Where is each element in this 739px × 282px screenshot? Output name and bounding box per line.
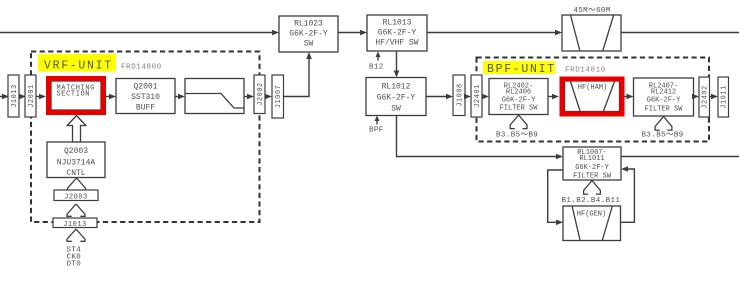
control arrow into RL2402	[510, 115, 527, 129]
svg-text:G6K-2F-Y: G6K-2F-Y	[289, 30, 328, 39]
svg-text:RL1013: RL1013	[383, 19, 412, 28]
svg-text:SST310: SST310	[131, 93, 160, 102]
svg-text:Q2001: Q2001	[133, 83, 157, 92]
label VRF-UNIT	[38, 54, 116, 73]
svg-text:J1008: J1008	[457, 83, 465, 107]
label FRD14800	[121, 64, 162, 72]
svg-text:J1013: J1013	[11, 84, 19, 108]
connector J1013	[8, 75, 19, 117]
wire RL1013 to 45M-60M filter	[427, 30, 562, 36]
svg-text:J2402: J2402	[702, 85, 710, 109]
dashed box VRF-UNIT	[31, 52, 260, 223]
svg-text:RL1011: RL1011	[579, 155, 604, 163]
wire RL1012 to RL1007	[397, 116, 564, 160]
svg-text:SECTION: SECTION	[57, 91, 91, 99]
relay RL2407	[634, 78, 694, 116]
svg-text:G6K-2F-Y: G6K-2F-Y	[378, 29, 417, 38]
svg-text:SW: SW	[391, 105, 401, 114]
connector J2001	[25, 75, 36, 117]
svg-text:RL1023: RL1023	[294, 20, 323, 29]
svg-text:FILTER SW: FILTER SW	[500, 105, 539, 113]
relay RL1013	[367, 15, 427, 51]
highlight red frame MATCHING SECTION	[49, 79, 104, 113]
svg-text:BPF-UNIT: BPF-UNIT	[487, 63, 556, 76]
svg-text:J2002: J2002	[257, 82, 265, 106]
svg-text:G6K-2F-Y: G6K-2F-Y	[377, 94, 416, 103]
svg-text:CNTL: CNTL	[66, 169, 85, 178]
svg-text:J2401: J2401	[474, 84, 482, 108]
svg-text:RL2406: RL2406	[506, 89, 531, 97]
wire J1013 to J2001	[19, 94, 26, 100]
svg-text:FILTER SW: FILTER SW	[645, 106, 684, 114]
filter 45M-60M	[562, 7, 621, 51]
svg-text:J2003: J2003	[64, 194, 88, 202]
wire RL1007 output	[621, 156, 739, 158]
wire HF(HAM) to RL2407	[625, 94, 634, 100]
control arrow J1013 to J2003	[67, 204, 85, 216]
label ST4 CK0 DT0	[67, 247, 82, 269]
wire RL1012 to J1008	[426, 94, 453, 100]
wire RL1023 to RL1013	[338, 30, 367, 36]
svg-text:J1013: J1013	[63, 221, 87, 229]
svg-text:HF(HAM): HF(HAM)	[578, 84, 607, 92]
svg-text:DT0: DT0	[67, 261, 82, 269]
svg-text:J1011: J1011	[721, 85, 729, 109]
control block arrow Q2003 to MATCHING SECTION	[67, 116, 86, 143]
wire top input to RL1023	[0, 30, 279, 36]
relay RL2402	[489, 79, 548, 115]
svg-text:G6K-2F-Y: G6K-2F-Y	[575, 164, 609, 172]
highlight red frame HF(HAM)	[562, 79, 622, 114]
wire RL2407 to J2402	[692, 94, 699, 100]
filter HF(HAM)	[565, 81, 620, 112]
svg-text:J2001: J2001	[28, 84, 36, 108]
svg-text:VRF-UNIT: VRF-UNIT	[44, 60, 113, 73]
label B3.B5-B9 right	[642, 132, 684, 140]
svg-text:G6K-2F-Y: G6K-2F-Y	[502, 97, 536, 105]
wire J1008 to J2401	[464, 94, 471, 100]
svg-text:NJU3714A: NJU3714A	[57, 159, 96, 168]
svg-text:HF/VHF SW: HF/VHF SW	[375, 39, 418, 48]
wire RL2402 to HF(HAM)	[548, 94, 559, 100]
svg-text:45M～60M: 45M～60M	[573, 7, 610, 15]
wire J2002 to J1007	[265, 94, 272, 100]
svg-text:FRD14800: FRD14800	[121, 64, 162, 72]
svg-text:B1.B2.B4.B11: B1.B2.B4.B11	[562, 197, 621, 205]
connector J2401	[471, 75, 482, 117]
label BPF-UNIT	[483, 61, 556, 76]
dashed box BPF-UNIT	[477, 58, 710, 142]
label B12 with arrow	[369, 52, 384, 72]
transistor Q2001	[116, 79, 175, 114]
svg-text:BPF: BPF	[369, 127, 384, 135]
wire 45M-60M filter output	[621, 32, 739, 34]
svg-text:B12: B12	[369, 64, 384, 72]
label FRD14810	[565, 67, 606, 75]
label B3.B5-B9 left	[496, 132, 538, 140]
wire MATCHING SECTION to Q2001	[106, 94, 116, 100]
wire left input to J1013	[0, 94, 9, 100]
control arrow into J1013 bottom	[67, 229, 85, 241]
control arrow J2003 to Q2003	[68, 178, 86, 190]
svg-text:HF(GEN): HF(GEN)	[577, 211, 606, 219]
relay RL1007	[563, 147, 621, 181]
svg-text:SW: SW	[304, 40, 314, 49]
svg-text:B3.B5～B9: B3.B5～B9	[496, 132, 538, 140]
connector J2003	[54, 190, 98, 202]
wire RL1013 to RL1012	[394, 51, 400, 78]
label B1.B2.B4.B11	[562, 197, 621, 205]
relay RL1012	[366, 78, 426, 116]
block MATCHING SECTION	[51, 81, 101, 110]
svg-text:RL2412: RL2412	[651, 89, 676, 97]
wire RL1007 to HF(GEN) loop left	[548, 170, 563, 225]
connector J1013 bottom	[53, 218, 97, 229]
svg-text:FILTER SW: FILTER SW	[573, 173, 612, 181]
svg-text:J1007: J1007	[275, 85, 283, 109]
connector J2402	[699, 77, 710, 117]
wire Q2001 to LPF	[175, 94, 185, 100]
svg-text:FRD14810: FRD14810	[565, 67, 606, 75]
control arrow into RL2407	[655, 117, 672, 131]
connector J1011	[718, 77, 729, 117]
label BPF with arrow	[369, 116, 384, 135]
svg-text:G6K-2F-Y: G6K-2F-Y	[647, 97, 681, 105]
wire LPF to J2002	[244, 94, 254, 100]
svg-text:RL1012: RL1012	[382, 83, 411, 92]
wire HF(GEN) to RL1007 loop right	[621, 166, 635, 222]
ic Q2003	[47, 142, 105, 178]
svg-text:B3.B5～B9: B3.B5～B9	[642, 132, 684, 140]
wire J1007 to RL1023	[284, 52, 312, 97]
connector J2002	[254, 75, 265, 114]
svg-text:Q2003: Q2003	[64, 147, 88, 156]
relay RL1023	[279, 16, 338, 52]
filter HF(GEN)	[563, 206, 621, 241]
connector J1007	[272, 75, 284, 118]
wire J2001 to MATCHING SECTION	[36, 94, 46, 100]
connector J1008	[453, 75, 465, 116]
svg-text:BUFF: BUFF	[136, 104, 155, 113]
wire J2401 to RL2402	[482, 94, 489, 100]
wire J2402 to J1011	[710, 94, 719, 100]
filter LPF	[185, 79, 244, 114]
control arrow into RL1007	[584, 181, 601, 195]
